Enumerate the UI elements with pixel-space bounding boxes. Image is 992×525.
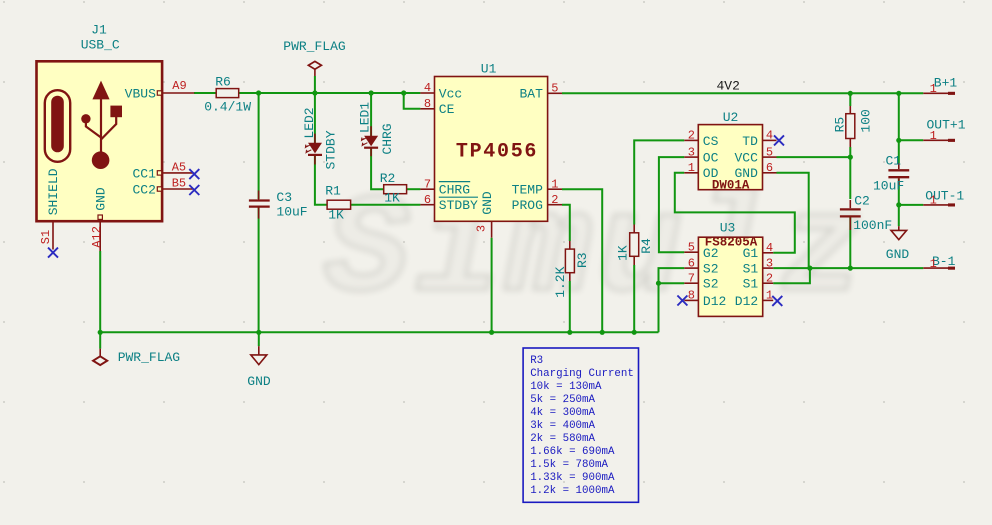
svg-text:5k = 250mA: 5k = 250mA xyxy=(530,394,595,406)
svg-text:2: 2 xyxy=(766,271,773,285)
svg-text:LED2: LED2 xyxy=(302,107,317,138)
svg-text:TP4056: TP4056 xyxy=(456,141,538,164)
svg-text:GND: GND xyxy=(247,374,271,389)
svg-text:1K: 1K xyxy=(616,245,631,261)
svg-text:1: 1 xyxy=(688,161,695,175)
svg-text:S1: S1 xyxy=(743,262,759,277)
svg-text:CS: CS xyxy=(703,134,719,149)
svg-text:C1: C1 xyxy=(886,154,902,169)
svg-text:1.2k = 1000mA: 1.2k = 1000mA xyxy=(530,485,615,497)
svg-text:C2: C2 xyxy=(854,194,870,209)
svg-text:3: 3 xyxy=(766,256,773,270)
svg-text:STDBY: STDBY xyxy=(323,130,338,169)
svg-text:1: 1 xyxy=(551,177,558,191)
svg-text:4: 4 xyxy=(766,129,773,143)
svg-text:PROG: PROG xyxy=(512,198,543,213)
svg-text:LED1: LED1 xyxy=(357,102,372,133)
svg-text:2: 2 xyxy=(551,193,558,207)
svg-text:R4: R4 xyxy=(639,238,654,254)
svg-text:CHRG: CHRG xyxy=(439,183,470,198)
svg-text:3: 3 xyxy=(688,145,695,159)
svg-text:TD: TD xyxy=(742,134,758,149)
svg-text:Vcc: Vcc xyxy=(439,86,462,101)
svg-text:PWR_FLAG: PWR_FLAG xyxy=(283,39,345,54)
svg-text:100nF: 100nF xyxy=(853,218,892,233)
svg-text:1: 1 xyxy=(930,194,937,208)
svg-text:4V2: 4V2 xyxy=(717,79,740,94)
svg-text:S1: S1 xyxy=(743,277,759,292)
svg-text:U2: U2 xyxy=(723,110,739,125)
svg-text:8: 8 xyxy=(688,289,695,303)
svg-text:CC2: CC2 xyxy=(132,182,155,197)
svg-text:PWR_FLAG: PWR_FLAG xyxy=(118,350,180,365)
svg-text:GND: GND xyxy=(480,191,495,215)
svg-text:1K: 1K xyxy=(384,191,400,206)
svg-text:1: 1 xyxy=(930,257,937,271)
svg-text:SHIELD: SHIELD xyxy=(46,168,61,215)
svg-text:R2: R2 xyxy=(380,171,396,186)
svg-text:A9: A9 xyxy=(172,79,186,93)
svg-text:4: 4 xyxy=(424,81,431,95)
svg-text:R3: R3 xyxy=(530,355,543,367)
svg-text:1.66k = 690mA: 1.66k = 690mA xyxy=(530,446,615,458)
svg-text:R5: R5 xyxy=(833,117,848,133)
svg-text:R1: R1 xyxy=(325,183,341,198)
svg-text:S1: S1 xyxy=(39,230,53,244)
svg-text:1.5k = 780mA: 1.5k = 780mA xyxy=(530,459,608,471)
svg-text:6: 6 xyxy=(688,256,695,270)
svg-text:4: 4 xyxy=(766,241,773,255)
svg-text:5: 5 xyxy=(551,82,558,96)
svg-text:2: 2 xyxy=(688,129,695,143)
svg-text:CE: CE xyxy=(439,102,455,117)
svg-text:C3: C3 xyxy=(276,190,292,205)
svg-text:VBUS: VBUS xyxy=(125,86,156,101)
svg-text:R6: R6 xyxy=(215,74,231,89)
svg-text:J1: J1 xyxy=(91,23,107,38)
svg-text:5: 5 xyxy=(688,240,695,254)
svg-text:FS8205A: FS8205A xyxy=(705,235,758,249)
svg-text:D12: D12 xyxy=(703,294,726,309)
svg-text:A5: A5 xyxy=(172,161,186,175)
svg-text:CHRG: CHRG xyxy=(380,123,395,154)
svg-text:6: 6 xyxy=(424,193,431,207)
svg-text:BAT: BAT xyxy=(519,87,543,102)
svg-text:D12: D12 xyxy=(735,294,758,309)
svg-text:GND: GND xyxy=(886,247,910,262)
svg-text:10k = 130mA: 10k = 130mA xyxy=(530,381,602,393)
svg-text:B+1: B+1 xyxy=(934,76,958,91)
svg-text:Charging Current: Charging Current xyxy=(530,368,634,380)
svg-text:1.2K: 1.2K xyxy=(553,266,568,297)
svg-text:1.33k = 900mA: 1.33k = 900mA xyxy=(530,472,615,484)
svg-text:USB_C: USB_C xyxy=(81,37,120,52)
svg-text:TEMP: TEMP xyxy=(512,183,543,198)
svg-text:1K: 1K xyxy=(328,208,344,223)
svg-text:5: 5 xyxy=(766,145,773,159)
svg-text:S2: S2 xyxy=(703,262,719,277)
svg-text:STDBY: STDBY xyxy=(439,198,478,213)
svg-text:U1: U1 xyxy=(481,62,497,77)
svg-text:3: 3 xyxy=(475,225,489,232)
svg-text:100: 100 xyxy=(858,109,873,132)
svg-text:VCC: VCC xyxy=(734,151,758,166)
svg-text:2k = 580mA: 2k = 580mA xyxy=(530,433,595,445)
svg-text:S2: S2 xyxy=(703,277,719,292)
svg-text:0.4/1W: 0.4/1W xyxy=(204,99,251,114)
svg-text:3k = 400mA: 3k = 400mA xyxy=(530,420,595,432)
svg-text:OC: OC xyxy=(703,151,719,166)
svg-text:R3: R3 xyxy=(575,252,590,268)
svg-text:B5: B5 xyxy=(172,177,186,191)
svg-text:6: 6 xyxy=(766,161,773,175)
svg-text:10uF: 10uF xyxy=(276,204,307,219)
svg-text:1: 1 xyxy=(766,289,773,303)
svg-text:7: 7 xyxy=(424,177,431,191)
svg-text:1: 1 xyxy=(930,129,937,143)
svg-text:A12: A12 xyxy=(90,226,104,248)
svg-text:10uF: 10uF xyxy=(873,179,904,194)
svg-text:DW01A: DW01A xyxy=(712,178,750,192)
svg-text:GND: GND xyxy=(93,187,108,211)
svg-text:1: 1 xyxy=(930,82,937,96)
svg-text:8: 8 xyxy=(424,97,431,111)
svg-text:CC1: CC1 xyxy=(132,166,156,181)
svg-text:7: 7 xyxy=(688,271,695,285)
svg-text:U3: U3 xyxy=(720,221,736,236)
svg-text:4k = 300mA: 4k = 300mA xyxy=(530,407,595,419)
